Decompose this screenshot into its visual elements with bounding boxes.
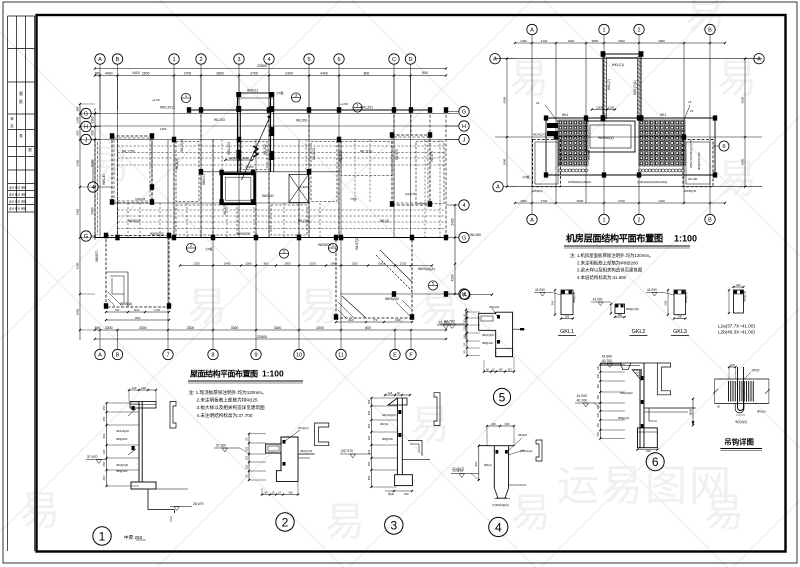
svg-text:450: 450 [367, 410, 371, 415]
svg-text:WKB70: WKB70 [95, 250, 99, 262]
svg-text:150: 150 [102, 405, 106, 410]
svg-text:1500: 1500 [596, 105, 603, 109]
stair mid landing marks [253, 146, 258, 157]
svg-text:8: 8 [211, 352, 214, 358]
detail 3: circle number [385, 516, 403, 534]
svg-text:7: 7 [166, 352, 169, 358]
svg-text:800: 800 [95, 71, 101, 75]
svg-text:3.梁大样以及相关构造详见建筑图: 3.梁大样以及相关构造详见建筑图 [577, 267, 643, 274]
svg-text:22800: 22800 [257, 64, 267, 68]
detail 1: step down [147, 489, 149, 510]
svg-text:WL1750: WL1750 [122, 150, 135, 154]
svg-text:9: 9 [254, 352, 257, 358]
detail 6: main wall [639, 370, 641, 448]
svg-text:6000: 6000 [741, 96, 745, 103]
svg-text:运易图网: 运易图网 [557, 462, 733, 509]
left plan: vertical grid lines [99, 76, 101, 238]
svg-text:200: 200 [678, 314, 683, 318]
svg-text:B: B [116, 352, 120, 358]
svg-text:250: 250 [618, 313, 623, 317]
detail 1: wall [138, 402, 140, 483]
svg-text:150: 150 [464, 334, 467, 339]
svg-text:400: 400 [76, 106, 80, 111]
svg-text:40.100: 40.100 [688, 177, 698, 181]
svg-text:H: H [84, 124, 88, 130]
svg-text:1320: 1320 [351, 261, 358, 265]
left plan: right vertical dim chain [454, 205, 456, 294]
left plan: top total dim 22800 [95, 68, 446, 70]
svg-text:300: 300 [551, 300, 555, 305]
svg-text:Φ8@(1)(5): Φ8@(1)(5) [626, 307, 639, 311]
left plan: lower-left inner step [106, 272, 128, 307]
svg-text:800: 800 [364, 71, 370, 75]
svg-text:中(4): 中(4) [388, 492, 394, 496]
svg-text:1150: 1150 [242, 156, 249, 160]
waffle left cell dots [559, 121, 587, 165]
svg-text:WKL201: WKL201 [160, 106, 173, 110]
svg-text:Φ8@(2)0: Φ8@(2)0 [618, 416, 630, 420]
svg-text:1400: 1400 [520, 39, 527, 43]
svg-text:4400: 4400 [320, 71, 328, 75]
svg-text:图: 图 [28, 148, 31, 152]
svg-text:4Φ(1)2@(2): 4Φ(1)2@(2) [382, 413, 397, 417]
lower-left wing local dims [106, 311, 169, 313]
svg-text:易: 易 [20, 489, 60, 533]
left plan: circled 4 left [88, 182, 98, 192]
svg-text:120: 120 [597, 412, 600, 417]
svg-text:1: 1 [99, 530, 106, 544]
svg-text:1500: 1500 [520, 199, 527, 203]
svg-text:2700: 2700 [184, 71, 192, 75]
svg-text:1300: 1300 [91, 116, 95, 123]
center module small dims [592, 109, 615, 111]
svg-text:设计 校对 审核: 设计 校对 审核 [9, 200, 26, 204]
svg-text:设计 校对 审核: 设计 校对 审核 [9, 186, 26, 190]
svg-text:1300: 1300 [76, 116, 80, 123]
svg-text:120: 120 [388, 391, 393, 395]
svg-text:240: 240 [404, 492, 409, 496]
svg-text:3300: 3300 [316, 326, 324, 330]
left plan: bottom segment dims [95, 329, 446, 331]
svg-text:1: 1 [602, 27, 605, 33]
svg-text:(2)0(2)0(2)0(2)0(2)0(2): (2)0(2)0(2)0(2)0(2)0(2) [637, 180, 667, 184]
svg-text:WKB200: WKB200 [237, 232, 250, 236]
detail 6: channel [657, 363, 670, 395]
tower black corner columns [236, 92, 241, 97]
svg-text:设计 校对 审核: 设计 校对 审核 [9, 193, 26, 197]
svg-text:WKL(7): WKL(7) [607, 79, 611, 90]
svg-text:WKB(4): WKB(4) [532, 189, 543, 193]
svg-text:(5)00: (5)00 [378, 261, 385, 265]
svg-text:L6: L6 [536, 101, 540, 105]
svg-text:100: 100 [141, 386, 146, 390]
svg-text:120: 120 [464, 342, 467, 347]
svg-text:WL97(2): WL97(2) [355, 237, 359, 250]
svg-text:11: 11 [338, 352, 344, 358]
svg-text:3120: 3120 [541, 39, 548, 43]
detail 2: inner bars [283, 440, 286, 444]
svg-text:L5: L5 [688, 100, 692, 104]
svg-text:+4.50: +4.50 [340, 102, 348, 106]
detail 4: channel [536, 440, 542, 461]
svg-text:G: G [462, 235, 466, 241]
left plan: horizontal grid lines [95, 113, 458, 115]
svg-text:WL303: WL303 [223, 204, 227, 215]
left plan: bottom axis bubbles [95, 349, 105, 359]
svg-text:2720: 2720 [618, 199, 625, 203]
right plan: circled 6 with leader [719, 141, 729, 151]
svg-text:设计 校对 审核: 设计 校对 审核 [9, 207, 26, 211]
svg-text:5800: 5800 [592, 39, 599, 43]
svg-text:2400: 2400 [451, 218, 455, 225]
roof access tower [238, 93, 274, 110]
svg-text:7(5)0: 7(5)0 [350, 197, 357, 201]
svg-text:G: G [84, 234, 88, 240]
svg-text:8100: 8100 [76, 159, 80, 166]
svg-text:A: A [493, 57, 497, 63]
elevator shaft (thick walls) [222, 174, 255, 204]
svg-text:300: 300 [505, 422, 510, 426]
svg-text:Φ8@(1)0: Φ8@(1)0 [743, 290, 747, 302]
svg-text:4200: 4200 [76, 262, 80, 269]
svg-text:1:100: 1:100 [262, 369, 284, 379]
svg-text:4Φ(2)0(2): 4Φ(2)0(2) [116, 463, 128, 467]
svg-text:WKB(2)0(2)0(2)0: WKB(2)0(2)0(2)0 [568, 180, 591, 184]
left plan: extra vertical partitions [127, 203, 129, 238]
svg-text:(3)4(4)5: (3)4(4)5 [135, 197, 146, 201]
left plan: left wing box [112, 136, 152, 203]
svg-text:3300: 3300 [187, 326, 195, 330]
svg-text:WKL(7)1: WKL(7)1 [612, 63, 625, 67]
svg-text:1900: 1900 [658, 39, 665, 43]
detail 6: right ledge upper [644, 407, 696, 409]
svg-text:5: 5 [499, 390, 506, 404]
svg-text:E: E [393, 352, 397, 358]
svg-text:4: 4 [462, 203, 465, 209]
detail 1: bottom slab [131, 482, 156, 489]
detail 2: dim chain [248, 434, 250, 480]
detail 5: Z block mirrored [479, 312, 513, 357]
right plan: bottom dim row [515, 202, 725, 204]
svg-text:41.000: 41.000 [647, 288, 657, 292]
svg-text:150: 150 [597, 404, 600, 409]
duct shaft with X [289, 175, 309, 203]
detail 1: top small dims [129, 389, 156, 391]
hook detail: hooks below [738, 403, 744, 410]
svg-text:2800: 2800 [216, 71, 224, 75]
svg-text:300: 300 [597, 383, 600, 388]
svg-text:450: 450 [102, 416, 106, 421]
svg-text:37.700: 37.700 [439, 321, 449, 325]
svg-text:3: 3 [390, 519, 397, 533]
svg-text:A: A [98, 57, 102, 63]
svg-text:WL(7)(1): WL(7)(1) [180, 139, 184, 152]
svg-text:100: 100 [498, 368, 503, 371]
svg-text:1300: 1300 [160, 127, 167, 131]
svg-text:易: 易 [325, 500, 365, 544]
svg-text:3000: 3000 [503, 158, 507, 165]
svg-text:2: 2 [637, 217, 640, 223]
left plan: left vertical dim chain [94, 108, 96, 240]
svg-text:L2a(37.7X~41.00): L2a(37.7X~41.00) [718, 324, 755, 329]
left plan: top bubble stems [99, 64, 101, 110]
svg-text:2.未注明板筋上部筋为Φ8@200: 2.未注明板筋上部筋为Φ8@200 [577, 259, 638, 266]
svg-text:41.000: 41.000 [535, 288, 545, 292]
svg-text:120: 120 [597, 365, 600, 370]
detail 4: taper bottom line [496, 497, 507, 499]
svg-text:图: 图 [19, 92, 23, 96]
right mini dim chain at 37.700 [465, 308, 467, 340]
svg-text:1400: 1400 [658, 199, 665, 203]
svg-text:WKL(7)(5)0(2)(1)(7)5: WKL(7)(5)0(2)(1)(7)5 [689, 139, 693, 168]
left plan: bottom bubble stems [99, 330, 101, 349]
svg-text:600: 600 [367, 423, 371, 428]
left plan: top segment dims [95, 75, 446, 77]
band bottom rebar circles [558, 169, 684, 172]
svg-text:G: G [84, 111, 88, 117]
svg-text:2400: 2400 [224, 261, 231, 265]
svg-text:+4.50: +4.50 [152, 98, 160, 102]
svg-text:1320: 1320 [309, 261, 316, 265]
elevator inner line [225, 177, 251, 200]
detail 2: Z-block [276, 437, 298, 481]
svg-text:(3)7.670: (3)7.670 [341, 449, 353, 453]
svg-text:4Φ12@20: 4Φ12@20 [116, 429, 129, 433]
detail 4: top dims [487, 425, 514, 427]
left wing box [533, 139, 561, 186]
svg-text:4Φ(1)(2)0: 4Φ(1)(2)0 [300, 449, 313, 453]
svg-text:40.700: 40.700 [602, 359, 612, 363]
svg-text:(1)150: (1)150 [245, 165, 254, 169]
right plan: top bubbles [527, 24, 537, 34]
right plan: horizontal grids [495, 58, 762, 60]
detail 1: coping channel [170, 402, 176, 429]
svg-text:WL1: WL1 [660, 113, 667, 117]
svg-text:800: 800 [95, 326, 101, 330]
svg-text:WKB(2): WKB(2) [128, 219, 140, 223]
svg-text:2Φ20: 2Φ20 [752, 369, 760, 373]
svg-text:700: 700 [115, 308, 120, 312]
svg-text:2Φ(1)(2): 2Φ(1)(2) [489, 305, 499, 309]
svg-text:100: 100 [288, 490, 293, 494]
svg-text:100: 100 [507, 368, 512, 371]
detail 2: bottom dims [262, 494, 298, 496]
svg-text:2400: 2400 [285, 71, 293, 75]
section cut circles inside plan [181, 93, 190, 102]
svg-text:600: 600 [367, 475, 371, 480]
svg-text:900: 900 [91, 130, 95, 136]
svg-text:150: 150 [597, 373, 600, 378]
detail 3: dim chain [370, 398, 372, 487]
detail 1: circle number [93, 527, 111, 545]
svg-text:(9)00: (9)00 [689, 408, 693, 415]
svg-text:5400: 5400 [91, 207, 95, 214]
detail 3: top dims [385, 394, 410, 396]
svg-text:WKB(A)(A): WKB(A)(A) [418, 267, 435, 271]
waffle right cell squares [640, 121, 643, 124]
left plan: lower-right wing [336, 238, 412, 319]
left plan: bottom total dim [95, 338, 446, 340]
svg-text:2700: 2700 [250, 71, 258, 75]
svg-text:Φ8@(2)0: Φ8@(2)0 [684, 291, 688, 303]
detail 6: wall bars [641, 376, 644, 380]
svg-text:900: 900 [102, 433, 106, 438]
detail 6: right step [649, 408, 657, 421]
svg-text:WL2021: WL2021 [312, 147, 316, 160]
svg-text:G: G [462, 109, 466, 115]
svg-text:1100: 1100 [134, 308, 140, 312]
svg-text:吊钩详图: 吊钩详图 [724, 438, 754, 447]
svg-text:小6板: 小6板 [522, 174, 530, 179]
svg-text:易: 易 [187, 285, 227, 329]
svg-text:250: 250 [367, 435, 371, 440]
waffle slab right [639, 120, 685, 166]
svg-text:250: 250 [597, 422, 600, 427]
interior dim row [180, 265, 432, 267]
left plan: top axis bubbles [95, 54, 105, 64]
hook detail: slab band [715, 378, 769, 380]
svg-text:MCA1175: MCA1175 [533, 133, 546, 137]
svg-text:150: 150 [245, 464, 249, 469]
stair wall rebar bars [270, 127, 275, 136]
svg-text:240: 240 [491, 422, 496, 426]
svg-text:(2)(1)75: (2)(1)75 [405, 192, 416, 196]
svg-text:2: 2 [282, 516, 289, 530]
svg-text:1100: 1100 [608, 105, 615, 109]
detail 6: hatch triangle [632, 370, 641, 381]
svg-text:中4(2): 中4(2) [484, 463, 492, 467]
svg-text:小6板: 小6板 [276, 90, 284, 95]
svg-text:120: 120 [245, 455, 249, 460]
right plan: right vertical dims [744, 59, 746, 187]
svg-text:1500: 1500 [135, 316, 141, 320]
svg-text:40.100: 40.100 [577, 399, 587, 403]
svg-text:27.870: 27.870 [453, 469, 463, 473]
svg-text:Φ8@200: Φ8@200 [382, 437, 393, 441]
svg-text:WL1(2): WL1(2) [175, 159, 179, 170]
detail 4: wall tapered [493, 446, 495, 488]
svg-text:6: 6 [337, 57, 340, 63]
svg-text:注: 1.现浇板厚除注明外,均为120mm。: 注: 1.现浇板厚除注明外,均为120mm。 [189, 389, 267, 396]
svg-text:WKB(2)0: WKB(2)0 [150, 232, 164, 236]
svg-text:2720: 2720 [541, 199, 548, 203]
svg-text:2500: 2500 [284, 261, 291, 265]
svg-text:5600: 5600 [577, 199, 584, 203]
svg-text:易: 易 [717, 57, 757, 101]
svg-text:4.本层结构标高为:41.600: 4.本层结构标高为:41.600 [577, 274, 627, 281]
svg-text:Φ8@200: Φ8@200 [116, 437, 128, 441]
svg-text:800: 800 [422, 71, 428, 75]
svg-text:3: 3 [237, 57, 240, 63]
svg-text:J: J [85, 137, 88, 143]
svg-text:WL203: WL203 [214, 118, 225, 122]
left plan: interior corridor dashed lines [118, 145, 447, 147]
svg-text:150: 150 [367, 399, 371, 404]
detail 4: leaders [508, 438, 524, 455]
detail 4: dim chain [478, 446, 480, 480]
svg-text:WL302: WL302 [263, 144, 267, 155]
svg-text:200: 200 [565, 314, 570, 318]
right plan: side bubbles [490, 54, 500, 64]
svg-text:WL203: WL203 [339, 151, 343, 162]
svg-text:WKB40: WKB40 [587, 149, 591, 160]
svg-text:2: 2 [637, 27, 640, 33]
svg-text:800: 800 [365, 326, 371, 330]
svg-text:4200: 4200 [451, 274, 455, 281]
detail 4: top line [479, 445, 515, 447]
tower corner columns [601, 51, 606, 57]
svg-text:6: 6 [652, 455, 659, 469]
svg-text:37.100: 37.100 [216, 444, 226, 448]
detail 6: dim chain [599, 364, 601, 438]
svg-text:纸: 纸 [19, 99, 23, 104]
svg-text:200: 200 [736, 283, 741, 287]
svg-text:WKL01: WKL01 [202, 174, 206, 185]
svg-text:2Φ(1)(2): 2Φ(1)(2) [298, 426, 309, 430]
svg-text:2Φ(1)4: 2Φ(1)4 [380, 422, 389, 426]
svg-text:3.板大样以及相关构造详见建筑图: 3.板大样以及相关构造详见建筑图 [197, 404, 266, 411]
left plan: lower-left wing [106, 236, 169, 308]
svg-text:WL975: WL975 [430, 151, 434, 162]
svg-text:2: 2 [199, 57, 202, 63]
hook detail: bars [729, 381, 754, 402]
svg-text:3300: 3300 [231, 326, 239, 330]
title block table [8, 16, 35, 212]
left plan: right wing box [392, 135, 430, 205]
svg-text:A: A [98, 352, 102, 358]
svg-text:800: 800 [264, 261, 269, 265]
svg-text:WKL203: WKL203 [227, 142, 231, 155]
svg-text:3300: 3300 [274, 326, 282, 330]
left plan: far-left outer dim chain [79, 104, 81, 340]
svg-text:易: 易 [511, 491, 551, 535]
circled A near detail5 [460, 290, 470, 300]
svg-text:150: 150 [464, 319, 467, 324]
svg-text:C: C [392, 57, 396, 63]
column blobs [187, 107, 191, 113]
svg-text:1(3)00: 1(3)00 [300, 185, 309, 189]
svg-text:4: 4 [495, 521, 502, 535]
svg-text:A: A [530, 27, 534, 33]
svg-text:D: D [409, 57, 413, 63]
left plan: top main beam [189, 109, 430, 111]
right plan left leaders [545, 105, 558, 122]
waffle slab left [558, 120, 588, 166]
detail 5: bottom dims [484, 371, 514, 373]
detail 6: lower slab [638, 428, 658, 448]
lower-right wing local dims [336, 321, 412, 323]
svg-text:WL1: WL1 [562, 113, 569, 117]
svg-text:41.000: 41.000 [593, 298, 603, 302]
svg-text:1150: 1150 [229, 156, 236, 160]
right plan: left vertical dims [506, 59, 508, 187]
svg-text:H: H [462, 124, 466, 130]
svg-text:小6板: 小6板 [205, 246, 213, 251]
svg-text:WL(2)4: WL(2)4 [298, 219, 309, 223]
svg-text:Φ8@200(1)50: Φ8@200(1)50 [697, 152, 701, 170]
detail 1: dim chain [106, 403, 108, 486]
svg-text:B: B [708, 217, 712, 223]
svg-text:120: 120 [102, 449, 106, 454]
detail 2: circle number [276, 513, 294, 531]
svg-text:WL203: WL203 [296, 119, 307, 123]
svg-text:A: A [757, 57, 761, 63]
svg-text:250: 250 [597, 394, 600, 399]
left plan: interior partitions [151, 140, 153, 204]
detail 2: right ledge [298, 453, 315, 455]
svg-text:600: 600 [102, 475, 106, 480]
detail 3: wall [396, 398, 398, 475]
